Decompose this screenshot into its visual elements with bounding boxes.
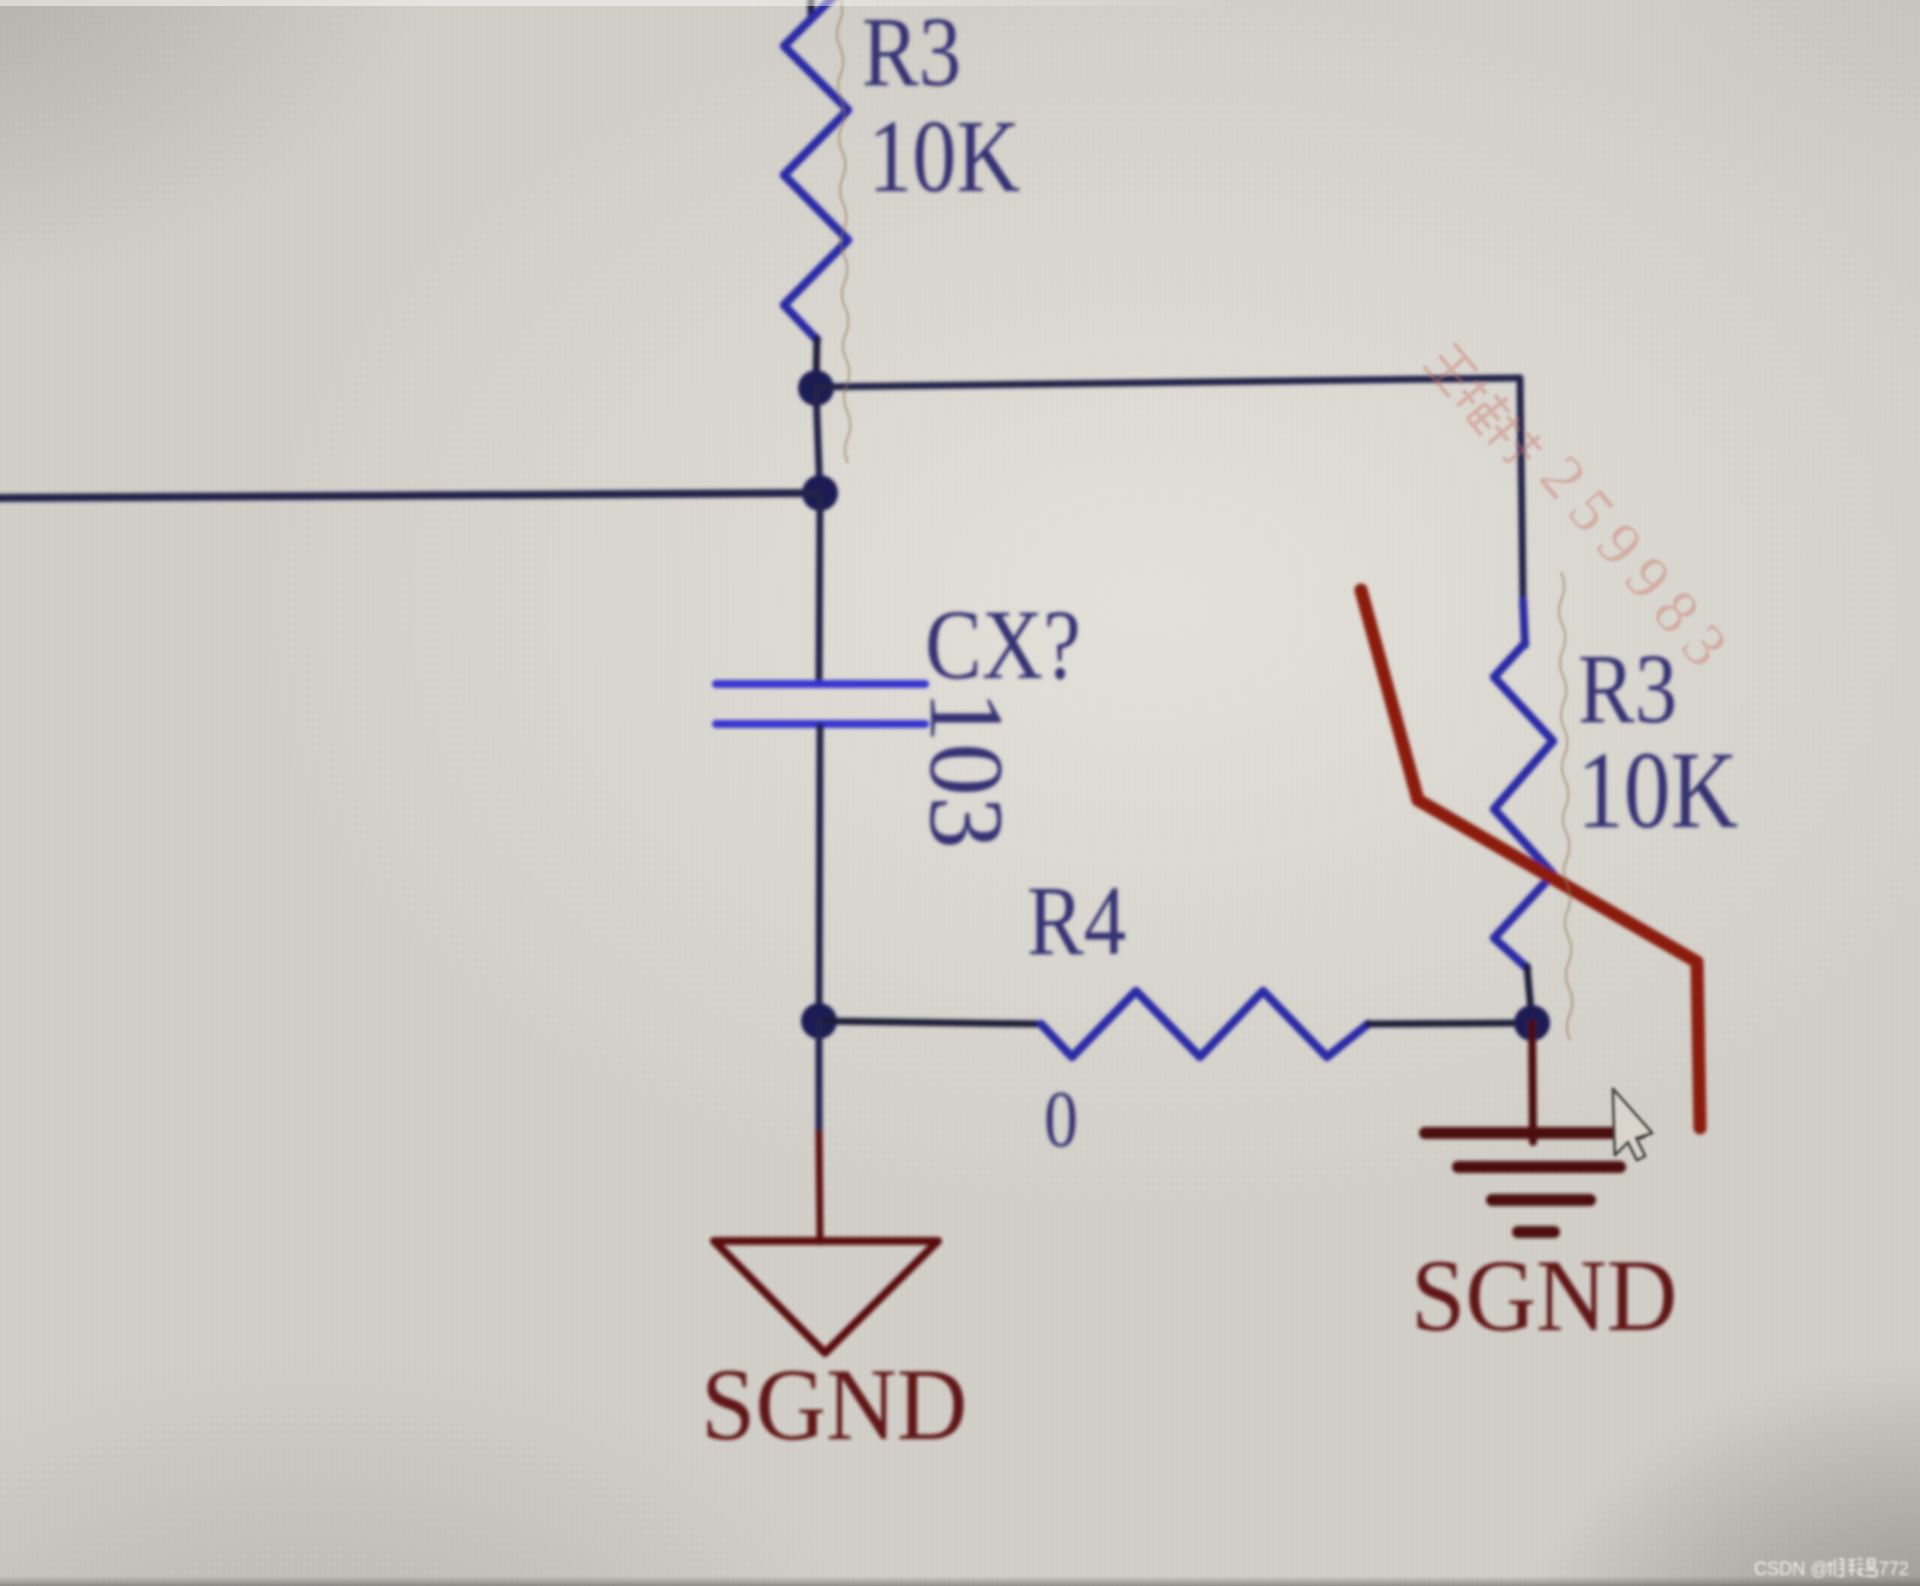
svg-text:CSDN @: CSDN @ xyxy=(1754,1557,1829,1579)
svg-text:SGND: SGND xyxy=(1411,1238,1677,1353)
wire (node B down to capacitor CX top pin) xyxy=(819,493,820,681)
wire (capacitor bottom pin down to node C) xyxy=(819,726,820,1021)
WATERMARKS xyxy=(837,0,1909,1579)
node C junction dot xyxy=(801,1003,837,1039)
svg-text:CX?: CX? xyxy=(925,590,1081,701)
node A junction dot xyxy=(798,370,834,406)
ground SGND right bar 2 xyxy=(1458,1161,1620,1173)
CSDN watermark xyxy=(1754,1557,1909,1579)
ground SGND right (stem from node D) xyxy=(1532,1023,1533,1142)
capacitor CX bottom plate xyxy=(716,720,925,728)
svg-text:SGND: SGND xyxy=(701,1347,967,1462)
svg-text:R4: R4 xyxy=(1027,866,1126,977)
mouse cursor xyxy=(1613,1089,1652,1160)
ground SGND right bar 1 xyxy=(1425,1127,1640,1139)
ground SGND right bar 4 xyxy=(1518,1226,1554,1238)
wire (R3 right bottom pin to node D) xyxy=(1527,966,1532,1022)
wire (right corner down to R3 right top pin) xyxy=(1520,378,1523,600)
svg-text:0: 0 xyxy=(1044,1076,1078,1164)
svg-text:772: 772 xyxy=(1879,1557,1909,1579)
wire (R3 bottom pin to node A) xyxy=(816,338,817,386)
svg-text:103: 103 xyxy=(908,690,1025,849)
svg-text:R3: R3 xyxy=(862,0,961,108)
wire (left edge to node B, horizontal) xyxy=(0,493,820,498)
photo artifact squiggle near right R3 xyxy=(1559,572,1572,1040)
wire (node A down to node B) xyxy=(816,389,820,494)
svg-text:R3: R3 xyxy=(1578,634,1677,745)
svg-text:10K: 10K xyxy=(868,98,1020,213)
annotation red line (diagonal stroke) xyxy=(1361,590,1700,1128)
svg-text:10K: 10K xyxy=(1577,730,1738,852)
ground SGND right bar 3 xyxy=(1492,1194,1590,1206)
wire (node A to right corner, horizontal) xyxy=(816,378,1520,387)
watermark diagonal (text + hatch glyphs) xyxy=(1424,322,1749,690)
capacitor CX top plate xyxy=(716,680,925,688)
photo artifact squiggle near R3 top xyxy=(837,0,850,463)
resistor R4 (zigzag body) xyxy=(1041,991,1368,1057)
resistor R3 top (zigzag body) xyxy=(784,0,848,340)
ground SGND left (stem) xyxy=(819,1133,820,1242)
ground SGND left (triangle) xyxy=(714,1241,938,1353)
wire (node C down to left ground stem) xyxy=(816,1021,823,1133)
node D junction dot xyxy=(1514,1005,1550,1041)
node B junction dot xyxy=(802,475,838,511)
wire (top stub above R3) xyxy=(808,0,815,18)
resistor R3 right (zigzag body) xyxy=(1494,643,1553,968)
wire (node C to R4 left pin) xyxy=(819,1021,1041,1024)
wire (R4 right pin to node D) xyxy=(1368,1023,1532,1024)
